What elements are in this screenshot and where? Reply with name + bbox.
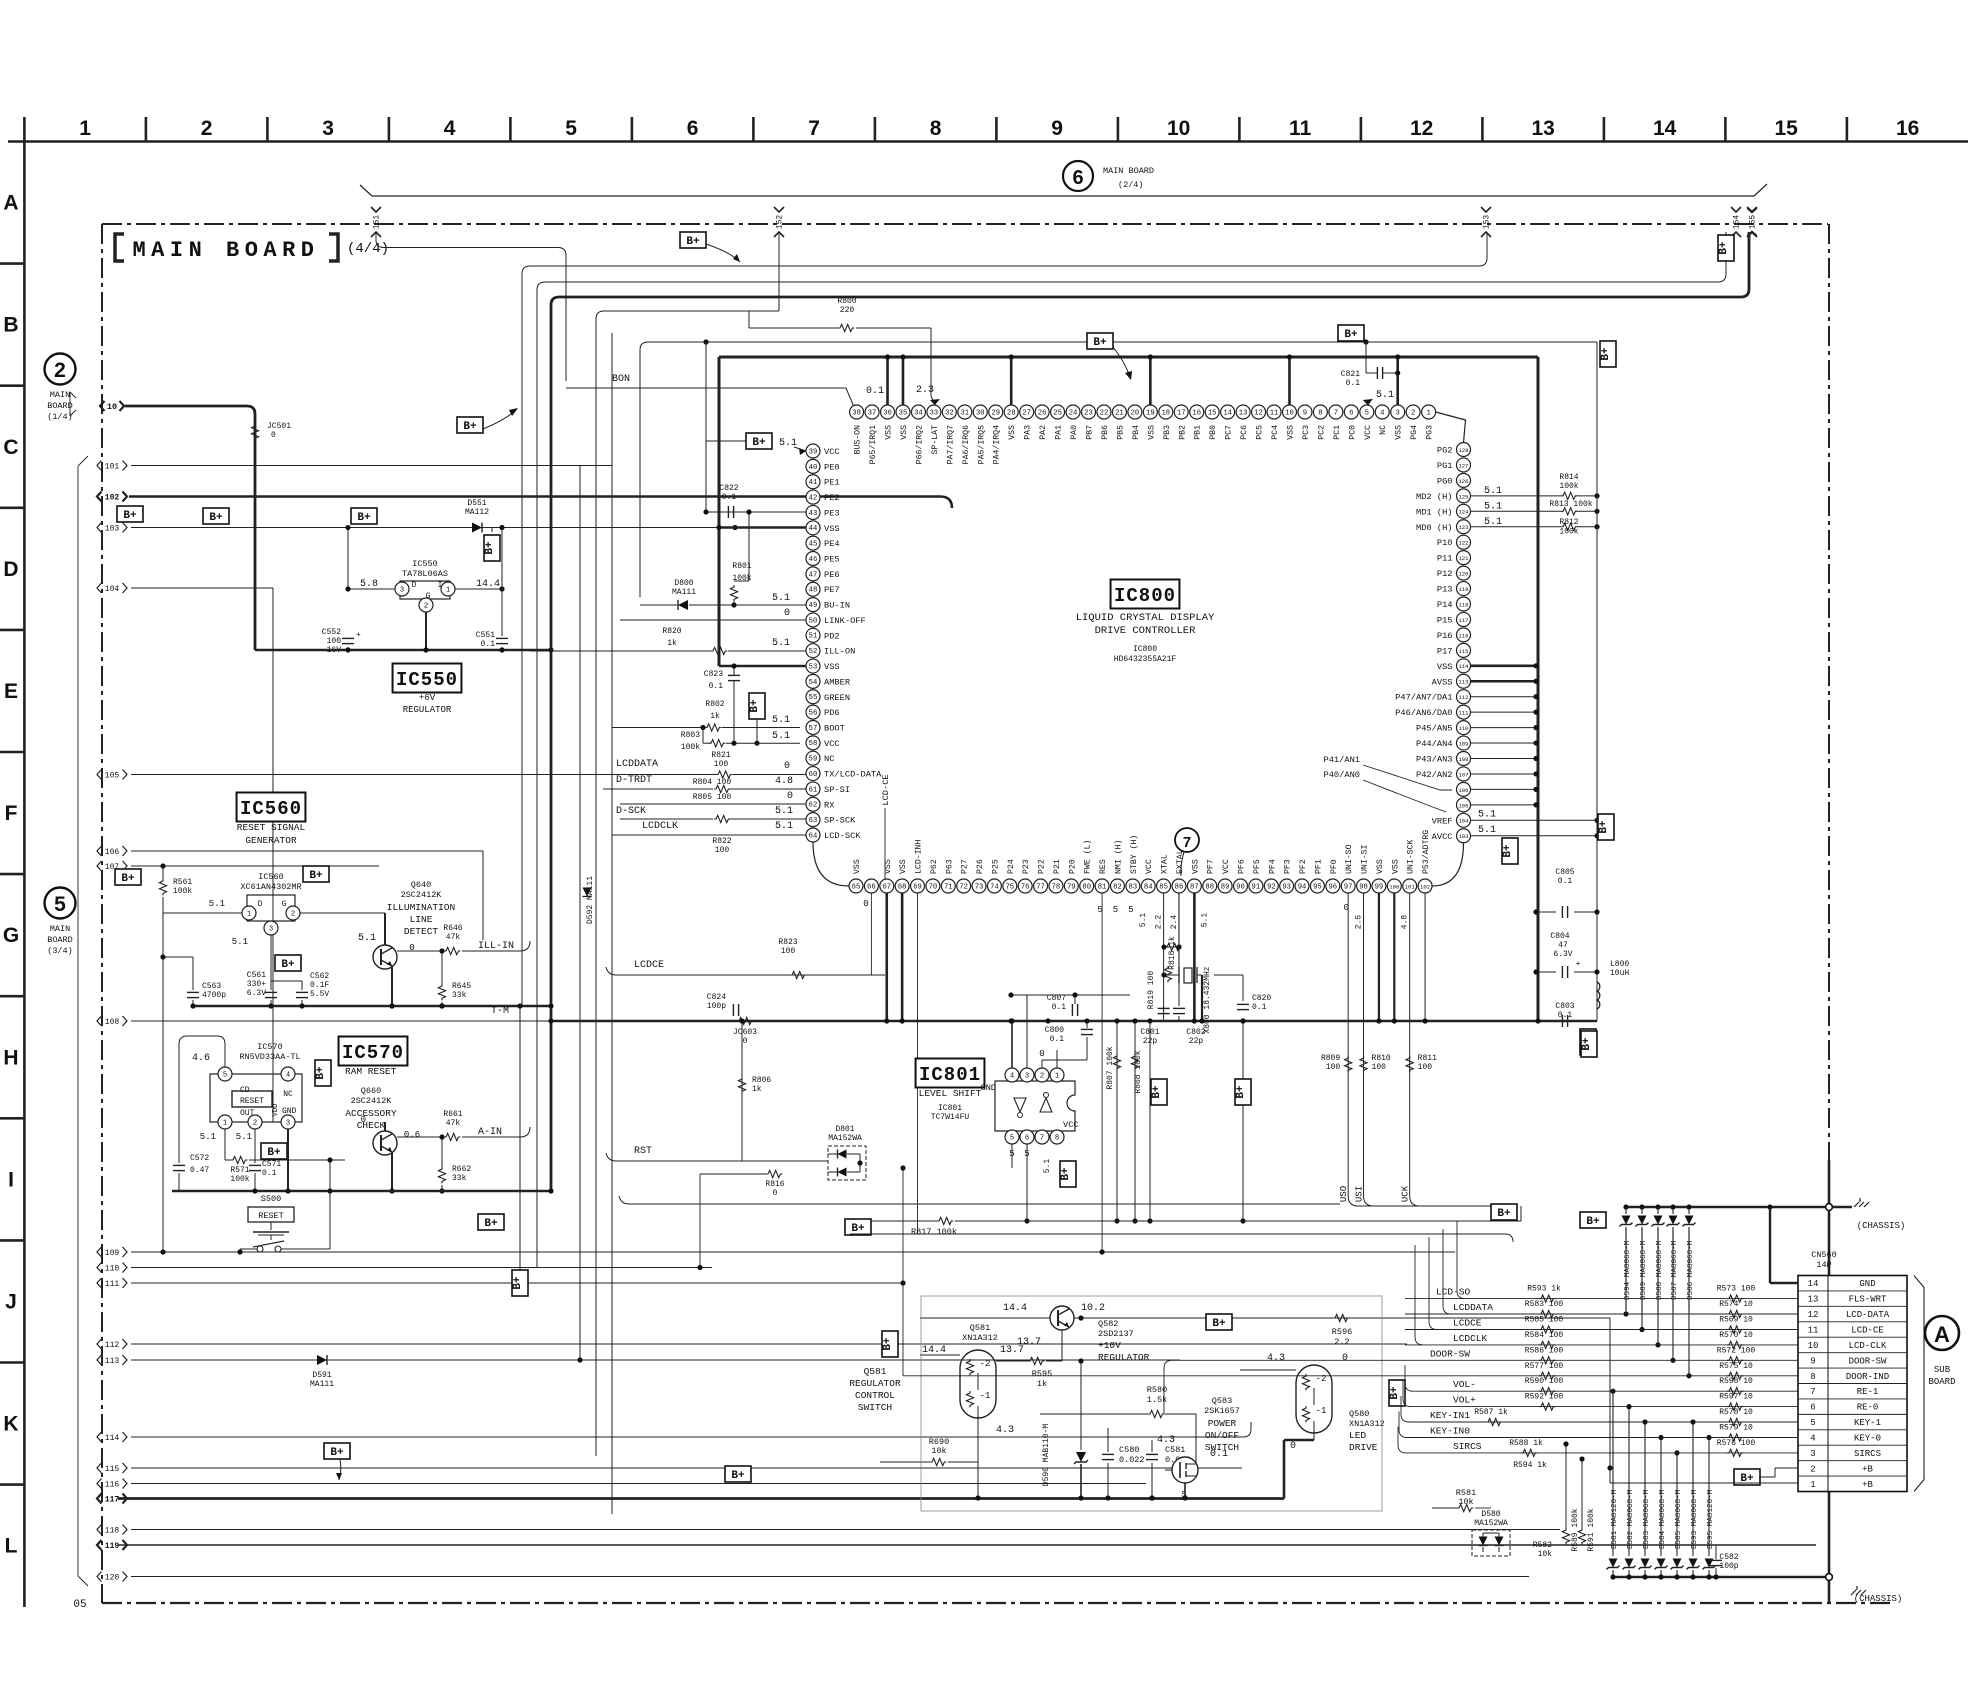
- svg-text:0.1: 0.1: [1252, 1003, 1267, 1012]
- svg-text:PE3: PE3: [824, 508, 840, 518]
- svg-text:LCD-DATA: LCD-DATA: [1846, 1310, 1890, 1320]
- svg-text:C803: C803: [1555, 1002, 1574, 1011]
- svg-text:5.1: 5.1: [1201, 913, 1210, 928]
- svg-text:82: 82: [1113, 883, 1122, 891]
- svg-text:RESET: RESET: [258, 1211, 284, 1221]
- resistor R806: [741, 1021, 743, 1161]
- pin 56: [806, 705, 820, 719]
- svg-text:R578 10: R578 10: [1719, 1408, 1753, 1417]
- svg-text:KEY-IN1: KEY-IN1: [1430, 1410, 1470, 1421]
- svg-text:54: 54: [809, 679, 818, 687]
- svg-text:5.1: 5.1: [209, 899, 225, 909]
- B+ supply label: [1581, 1031, 1597, 1057]
- svg-text:0: 0: [863, 899, 868, 909]
- svg-text:4: 4: [1380, 409, 1384, 417]
- pin 6: [1020, 1130, 1034, 1144]
- svg-text:8: 8: [1318, 409, 1322, 417]
- svg-text:89: 89: [1221, 883, 1230, 891]
- svg-text:33k: 33k: [452, 1174, 467, 1183]
- pin 68: [895, 879, 909, 893]
- svg-text:BOOT: BOOT: [824, 723, 845, 733]
- svg-text:NC: NC: [283, 1090, 293, 1099]
- svg-text:14: 14: [1653, 117, 1677, 140]
- svg-text:IC560: IC560: [240, 798, 302, 820]
- B+ supply label: [1600, 341, 1616, 367]
- svg-text:K: K: [3, 1413, 18, 1436]
- svg-text:PB6: PB6: [1101, 425, 1110, 440]
- svg-text:RN5VD33AA-TL: RN5VD33AA-TL: [239, 1052, 300, 1062]
- svg-text:LED: LED: [1349, 1430, 1366, 1441]
- svg-text:2SD2137: 2SD2137: [1098, 1329, 1134, 1339]
- pin 3: [395, 582, 409, 596]
- svg-text:R807 100k: R807 100k: [1106, 1046, 1115, 1089]
- svg-text:R584 100: R584 100: [1525, 1331, 1564, 1340]
- svg-text:+: +: [356, 631, 361, 640]
- svg-text:R588 1k: R588 1k: [1509, 1439, 1543, 1448]
- svg-text:LEVEL SHIFT: LEVEL SHIFT: [919, 1088, 982, 1099]
- svg-text:R818 1k: R818 1k: [1168, 936, 1177, 970]
- svg-text:+10V: +10V: [1098, 1340, 1121, 1351]
- svg-text:127: 127: [1458, 462, 1468, 469]
- svg-text:G: G: [426, 592, 431, 601]
- svg-text:44: 44: [809, 525, 818, 533]
- svg-text:+6V: +6V: [419, 693, 436, 703]
- svg-text:+: +: [1576, 960, 1581, 969]
- svg-text:49: 49: [809, 602, 818, 610]
- svg-text:B+: B+: [1718, 241, 1730, 255]
- svg-text:IC800: IC800: [1114, 585, 1176, 607]
- svg-text:GND: GND: [282, 1107, 297, 1116]
- svg-text:KEY-0: KEY-0: [1854, 1434, 1881, 1444]
- pin 77: [1034, 879, 1048, 893]
- svg-text:PE0: PE0: [824, 462, 840, 472]
- svg-text:D585 MA8068-M: D585 MA8068-M: [1675, 1489, 1683, 1549]
- svg-text:MA111: MA111: [310, 1380, 334, 1389]
- pin 57: [806, 720, 820, 734]
- svg-text:B+: B+: [484, 541, 496, 555]
- svg-text:P44/AN4: P44/AN4: [1416, 739, 1453, 749]
- svg-text:(2/4): (2/4): [1118, 180, 1144, 190]
- pin 15: [1205, 405, 1219, 419]
- svg-text:Q583: Q583: [1212, 1396, 1232, 1406]
- pin 126: [1457, 473, 1471, 487]
- pin 120: [1457, 566, 1471, 580]
- svg-text:4.8: 4.8: [775, 776, 793, 787]
- svg-text:P17: P17: [1437, 646, 1453, 656]
- svg-text:D800: D800: [674, 579, 693, 588]
- pin 127: [1457, 458, 1471, 472]
- pin 62: [806, 797, 820, 811]
- svg-text:11: 11: [1808, 1326, 1819, 1336]
- svg-text:12: 12: [1254, 409, 1263, 417]
- svg-text:CN560: CN560: [1811, 1250, 1837, 1260]
- pin 84: [1141, 879, 1155, 893]
- svg-text:6: 6: [1072, 167, 1083, 189]
- pin 1: [1050, 1068, 1064, 1082]
- svg-text:PB0: PB0: [1209, 425, 1218, 440]
- svg-text:47k: 47k: [446, 933, 461, 942]
- svg-text:6: 6: [687, 117, 699, 140]
- svg-text:RESET: RESET: [240, 1097, 264, 1106]
- svg-text:15: 15: [1208, 409, 1217, 417]
- B+ supply label: [749, 693, 765, 719]
- svg-text:PF1: PF1: [1314, 859, 1323, 874]
- wire bus to main board 2/4: [372, 195, 1754, 197]
- svg-text:C823: C823: [704, 670, 723, 679]
- svg-text:PG1: PG1: [1437, 461, 1453, 471]
- svg-text:90: 90: [1236, 883, 1245, 891]
- svg-text:113: 113: [1458, 679, 1468, 686]
- B+ supply label: [115, 869, 141, 885]
- wire USO USI UCK: [1347, 893, 1349, 1196]
- svg-text:103: 103: [1458, 833, 1468, 840]
- svg-text:1: 1: [446, 586, 450, 594]
- svg-text:R590 100: R590 100: [1525, 1377, 1564, 1386]
- node 7: [1175, 828, 1199, 852]
- wire 108 T-M: [131, 1020, 551, 1022]
- pin 50: [806, 613, 820, 627]
- svg-text:115: 115: [105, 1465, 120, 1474]
- pin 3: [1391, 405, 1405, 419]
- pin 43: [806, 505, 820, 519]
- svg-text:5.1: 5.1: [775, 821, 793, 832]
- svg-text:37: 37: [868, 409, 877, 417]
- pin 1: [242, 906, 256, 920]
- pin 2: [419, 598, 433, 612]
- diodes D594 D589 D588 D587 D586: [1623, 1204, 1628, 1209]
- svg-text:PE2: PE2: [824, 493, 840, 503]
- svg-text:C572: C572: [190, 1154, 209, 1163]
- wire 105 LCDDATA: [131, 774, 717, 776]
- svg-text:PC0: PC0: [1348, 425, 1357, 440]
- svg-text:P25: P25: [991, 859, 1000, 874]
- svg-text:3: 3: [322, 117, 334, 140]
- svg-text:2SK1657: 2SK1657: [1204, 1406, 1240, 1416]
- svg-text:5.1: 5.1: [1043, 1159, 1052, 1174]
- svg-text:R598 10: R598 10: [1719, 1377, 1753, 1386]
- svg-text:5: 5: [54, 893, 66, 916]
- svg-text:R592 100: R592 100: [1525, 1393, 1564, 1402]
- svg-text:79: 79: [1067, 883, 1076, 891]
- pin 65: [849, 879, 863, 893]
- pin 83: [1126, 879, 1140, 893]
- svg-text:IC800: IC800: [1133, 645, 1157, 654]
- pin 29: [989, 405, 1003, 419]
- svg-text:110: 110: [105, 1264, 120, 1273]
- svg-text:A-IN: A-IN: [478, 1127, 502, 1138]
- svg-text:R575 10: R575 10: [1719, 1362, 1753, 1371]
- svg-text:POWER: POWER: [1208, 1418, 1237, 1429]
- svg-text:PC1: PC1: [1333, 425, 1342, 440]
- svg-text:IC570: IC570: [342, 1042, 404, 1064]
- svg-text:112: 112: [105, 1341, 120, 1350]
- svg-text:(4/4): (4/4): [347, 241, 389, 257]
- B+ supply label: [1734, 1469, 1760, 1485]
- wire 119: [118, 1544, 1816, 1546]
- svg-text:P23: P23: [1022, 859, 1031, 874]
- svg-text:119: 119: [105, 1542, 120, 1551]
- svg-text:R597 10: R597 10: [1719, 1393, 1753, 1402]
- svg-text:PE1: PE1: [824, 478, 840, 488]
- svg-text:151: 151: [373, 215, 382, 230]
- svg-text:4: 4: [1010, 1072, 1014, 1080]
- svg-text:6.3V: 6.3V: [247, 989, 266, 998]
- svg-text:4: 4: [444, 117, 456, 140]
- svg-text:1: 1: [1055, 1072, 1059, 1080]
- pin 8: [1050, 1130, 1064, 1144]
- svg-text:C822: C822: [719, 484, 738, 493]
- svg-text:124: 124: [1458, 509, 1469, 516]
- wire 113: [131, 1359, 1180, 1361]
- svg-text:109: 109: [105, 1249, 120, 1258]
- svg-text:155: 155: [1749, 215, 1758, 230]
- svg-text:PF5: PF5: [1253, 859, 1262, 874]
- pin 12: [1252, 405, 1266, 419]
- pin 99: [1372, 879, 1386, 893]
- resistor R596: [1333, 1314, 1349, 1321]
- svg-text:29: 29: [991, 409, 1000, 417]
- svg-text:68: 68: [898, 883, 907, 891]
- svg-text:P47/AN7/DA1: P47/AN7/DA1: [1395, 693, 1452, 703]
- svg-text:69: 69: [913, 883, 922, 891]
- svg-text:100: 100: [714, 760, 729, 769]
- svg-text:I: I: [8, 1168, 14, 1191]
- svg-text:XC61AN4302MR: XC61AN4302MR: [240, 882, 301, 892]
- svg-text:PE4: PE4: [824, 539, 840, 549]
- B+ supply label: [725, 1466, 751, 1482]
- svg-text:0.022: 0.022: [1119, 1455, 1145, 1465]
- svg-text:125: 125: [1458, 493, 1468, 500]
- svg-text:GREEN: GREEN: [824, 693, 850, 703]
- resistor R817: [871, 1220, 937, 1222]
- svg-text:2SC2412K: 2SC2412K: [401, 890, 443, 900]
- svg-text:0.1: 0.1: [709, 682, 724, 691]
- svg-text:Q640: Q640: [411, 880, 431, 890]
- resistor R661: [444, 1133, 460, 1140]
- svg-text:D801: D801: [835, 1125, 854, 1134]
- svg-text:0: 0: [787, 791, 793, 802]
- svg-text:114: 114: [1458, 663, 1469, 670]
- svg-text:5: 5: [1113, 905, 1118, 915]
- svg-text:TA78L06AS: TA78L06AS: [402, 569, 448, 579]
- svg-text:B+: B+: [1497, 1208, 1511, 1220]
- svg-text:D587 MA8068-M: D587 MA8068-M: [1671, 1240, 1679, 1300]
- svg-text:B+: B+: [1344, 329, 1358, 341]
- svg-text:0.1: 0.1: [1558, 1011, 1573, 1020]
- svg-text:4.3: 4.3: [1157, 1435, 1175, 1446]
- svg-text:P66/IRQ2: P66/IRQ2: [914, 425, 924, 464]
- pin 96: [1326, 879, 1340, 893]
- svg-text:P24: P24: [1007, 859, 1016, 874]
- pin 51: [806, 628, 820, 642]
- svg-text:9: 9: [1810, 1356, 1815, 1366]
- svg-text:R573 100: R573 100: [1717, 1285, 1756, 1294]
- svg-text:R809: R809: [1321, 1054, 1340, 1063]
- svg-text:G: G: [3, 924, 19, 947]
- pin 61: [806, 782, 820, 796]
- pin 86: [1172, 879, 1186, 893]
- svg-text:6.3V: 6.3V: [1553, 950, 1572, 959]
- svg-text:RESET SIGNAL: RESET SIGNAL: [237, 822, 306, 833]
- svg-text:1k: 1k: [710, 712, 720, 721]
- svg-text:VSS: VSS: [1147, 425, 1156, 440]
- pin 1: [441, 582, 455, 596]
- label IC800: [1111, 580, 1180, 609]
- svg-text:17: 17: [1177, 409, 1186, 417]
- svg-text:P26: P26: [976, 859, 985, 874]
- svg-text:LINE: LINE: [410, 914, 433, 925]
- svg-text:152: 152: [776, 215, 785, 230]
- pin 1: [1422, 405, 1436, 419]
- pin 25: [1051, 405, 1065, 419]
- pin 80: [1080, 879, 1094, 893]
- svg-text:MA152WA: MA152WA: [828, 1134, 862, 1143]
- svg-text:88: 88: [1205, 883, 1214, 891]
- svg-text:PG3: PG3: [1426, 425, 1435, 440]
- svg-text:117: 117: [1458, 617, 1468, 624]
- svg-text:BOARD: BOARD: [1928, 1377, 1955, 1387]
- svg-text:PC6: PC6: [1240, 425, 1249, 440]
- svg-text:4.6: 4.6: [192, 1053, 210, 1064]
- B+ supply label: [315, 1060, 331, 1086]
- svg-text:PA3: PA3: [1024, 425, 1033, 440]
- pin 125: [1457, 489, 1471, 503]
- svg-text:PG2: PG2: [1437, 446, 1453, 456]
- pin 60: [806, 767, 820, 781]
- svg-text:120: 120: [105, 1573, 120, 1582]
- svg-text:SIRCS: SIRCS: [1453, 1441, 1482, 1452]
- svg-text:33: 33: [930, 409, 939, 417]
- pin 100: [1387, 879, 1401, 893]
- svg-text:P12: P12: [1437, 569, 1453, 579]
- svg-text:D-SCK: D-SCK: [616, 806, 646, 817]
- svg-text:7: 7: [1810, 1387, 1815, 1397]
- svg-text:3: 3: [1396, 409, 1400, 417]
- svg-text:5.1: 5.1: [1484, 501, 1502, 512]
- svg-text:B: B: [3, 314, 18, 337]
- pin 73: [972, 879, 986, 893]
- svg-text:5: 5: [1365, 409, 1369, 417]
- svg-text:2: 2: [201, 117, 213, 140]
- svg-text:10: 10: [1167, 117, 1190, 140]
- svg-text:B+: B+: [1600, 347, 1612, 361]
- pin 20: [1128, 405, 1142, 419]
- svg-text:87: 87: [1190, 883, 1199, 891]
- pin 114: [1457, 659, 1471, 673]
- B+ supply label: [1718, 235, 1734, 261]
- svg-text:5: 5: [1810, 1418, 1815, 1428]
- svg-text:R802: R802: [705, 700, 724, 709]
- svg-text:NMI (H): NMI (H): [1113, 840, 1123, 874]
- svg-text:D: D: [258, 900, 263, 909]
- svg-text:C805: C805: [1555, 868, 1574, 877]
- svg-text:3: 3: [1025, 1072, 1029, 1080]
- B+ supply label: [1087, 333, 1113, 349]
- svg-text:LCD-CLK: LCD-CLK: [1849, 1341, 1887, 1351]
- pin 46: [806, 552, 820, 566]
- svg-text:R596: R596: [1332, 1327, 1352, 1337]
- svg-text:R585 100: R585 100: [1525, 1316, 1564, 1325]
- svg-text:100k: 100k: [1559, 528, 1578, 537]
- svg-text:D-TRDT: D-TRDT: [616, 775, 652, 786]
- B+ supply label: [261, 1143, 287, 1159]
- svg-text:16: 16: [1192, 409, 1201, 417]
- B+ supply label: [303, 866, 329, 882]
- svg-text:Q581: Q581: [970, 1323, 990, 1333]
- diode D551: [472, 523, 482, 533]
- B+ supply label: [1151, 1079, 1167, 1105]
- svg-text:86: 86: [1175, 883, 1184, 891]
- svg-text:27: 27: [1022, 409, 1031, 417]
- svg-text:D591: D591: [312, 1371, 331, 1380]
- svg-text:BOARD: BOARD: [47, 935, 73, 945]
- B+ supply label: [457, 417, 483, 433]
- svg-text:D551: D551: [467, 499, 486, 508]
- svg-text:JC603: JC603: [733, 1028, 757, 1037]
- svg-text:4: 4: [286, 1071, 290, 1079]
- svg-text:1k: 1k: [752, 1085, 762, 1094]
- pin 79: [1064, 879, 1078, 893]
- svg-text:56: 56: [809, 710, 818, 718]
- pin 47: [806, 567, 820, 581]
- svg-text:74: 74: [990, 883, 999, 891]
- svg-text:B+: B+: [1235, 1085, 1247, 1099]
- svg-text:85: 85: [1159, 883, 1168, 891]
- pin 58: [806, 736, 820, 750]
- svg-text:R589 100k: R589 100k: [1571, 1508, 1580, 1551]
- svg-text:0: 0: [1290, 1441, 1296, 1452]
- svg-text:23: 23: [1084, 409, 1093, 417]
- wire 114: [131, 1436, 1243, 1438]
- svg-text:05: 05: [73, 1599, 86, 1611]
- svg-text:KEY-IN0: KEY-IN0: [1430, 1426, 1470, 1437]
- pin 71: [941, 879, 955, 893]
- svg-text:76: 76: [1021, 883, 1030, 891]
- svg-text:12: 12: [1410, 117, 1433, 140]
- svg-text:C804: C804: [1550, 932, 1569, 941]
- B+ supply label: [203, 508, 229, 524]
- svg-text:XTAL: XTAL: [1161, 854, 1170, 874]
- svg-text:R587 1k: R587 1k: [1474, 1408, 1508, 1417]
- pin 117: [1457, 612, 1471, 626]
- svg-text:126: 126: [1458, 478, 1468, 485]
- svg-text:52: 52: [809, 648, 818, 656]
- svg-text:109: 109: [1458, 740, 1468, 747]
- svg-text:B+: B+: [121, 873, 135, 885]
- svg-text:1k: 1k: [1037, 1379, 1047, 1389]
- diode D591: [317, 1355, 327, 1365]
- svg-text:R814: R814: [1559, 473, 1578, 482]
- svg-text:100: 100: [1372, 1063, 1387, 1072]
- pin 5: [1360, 405, 1374, 419]
- svg-text:RST: RST: [634, 1146, 652, 1157]
- svg-text:97: 97: [1344, 883, 1353, 891]
- pin 40: [806, 459, 820, 473]
- svg-text:3: 3: [1810, 1449, 1815, 1459]
- svg-text:0: 0: [361, 1115, 366, 1125]
- svg-text:5: 5: [1010, 1134, 1014, 1142]
- svg-text:110: 110: [1458, 725, 1469, 732]
- svg-text:C821: C821: [1341, 370, 1360, 379]
- svg-text:MA152WA: MA152WA: [1474, 1519, 1508, 1528]
- svg-text:IC801: IC801: [919, 1064, 981, 1086]
- wire 103: [131, 527, 795, 529]
- svg-text:P15: P15: [1437, 615, 1453, 625]
- pin 14: [1221, 405, 1235, 419]
- svg-text:PC2: PC2: [1317, 425, 1326, 440]
- resistor R561: [159, 879, 166, 895]
- svg-text:TC7W14FU: TC7W14FU: [931, 1113, 970, 1122]
